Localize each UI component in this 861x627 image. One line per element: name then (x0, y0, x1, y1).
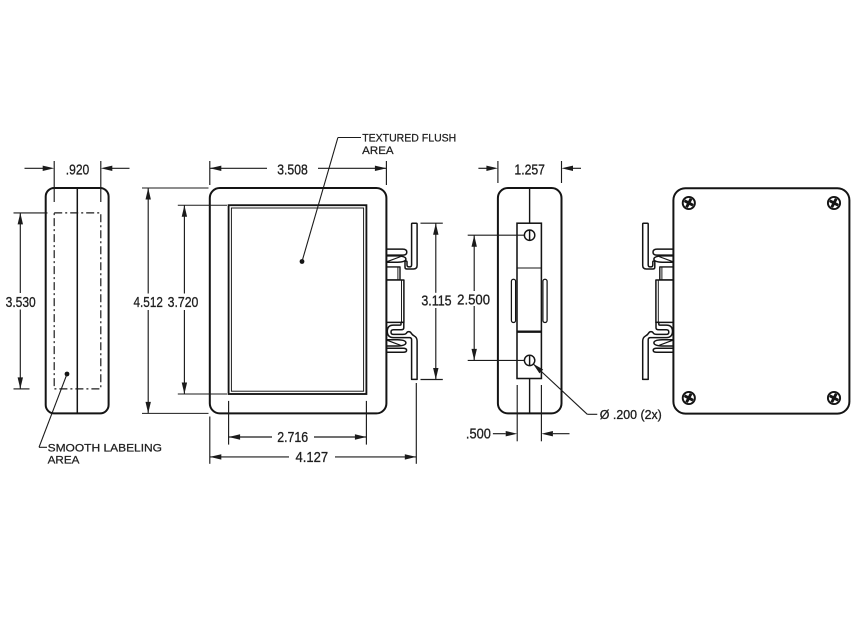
svg-text:3.720: 3.720 (168, 295, 199, 311)
svg-text:TEXTURED FLUSH: TEXTURED FLUSH (362, 133, 456, 145)
svg-text:1.257: 1.257 (514, 162, 545, 178)
svg-text:AREA: AREA (362, 145, 394, 157)
svg-text:Ø .200 (2x): Ø .200 (2x) (600, 408, 662, 422)
svg-text:.920: .920 (66, 162, 90, 178)
svg-text:4.127: 4.127 (296, 450, 329, 466)
svg-text:AREA: AREA (48, 454, 81, 466)
svg-text:2.500: 2.500 (457, 292, 490, 308)
svg-text:2.716: 2.716 (277, 430, 308, 446)
svg-text:3.508: 3.508 (277, 162, 308, 178)
svg-text:.500: .500 (466, 427, 491, 443)
svg-text:4.512: 4.512 (134, 295, 163, 311)
svg-text:3.530: 3.530 (6, 295, 36, 311)
svg-text:3.115: 3.115 (421, 294, 451, 310)
svg-text:SMOOTH LABELING: SMOOTH LABELING (48, 443, 162, 455)
